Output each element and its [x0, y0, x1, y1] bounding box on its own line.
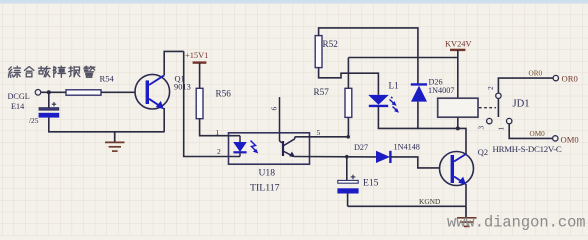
svg-text:OM0: OM0	[530, 130, 546, 138]
wire: coil bottom stub	[457, 117, 459, 128]
resistor R57	[345, 88, 352, 117]
svg-text:9013: 9013	[174, 83, 191, 92]
wire: DCGL terminal to R54	[41, 91, 66, 93]
svg-text:+15V1: +15V1	[185, 51, 208, 60]
wire: R54 to Q1 base	[101, 91, 135, 93]
capacitor E15	[337, 175, 358, 194]
ground near E14	[105, 132, 125, 151]
wire: Q2 emitter down	[465, 184, 467, 206]
terminal OM0	[553, 136, 558, 141]
svg-text:6: 6	[270, 107, 279, 111]
svg-text:1N4007: 1N4007	[428, 86, 454, 95]
transistor Q2	[440, 152, 474, 186]
svg-text:1N4148: 1N4148	[394, 142, 420, 151]
ground under Q2	[457, 206, 477, 226]
relay contact pin 3	[487, 118, 492, 123]
wire: opto pin4 to D27	[295, 156, 376, 158]
svg-text:E15: E15	[363, 177, 379, 188]
svg-text:R52: R52	[323, 39, 339, 49]
optocoupler U18 box	[229, 133, 310, 164]
opto LED	[233, 136, 247, 157]
text 综合故障报警	[8, 66, 95, 77]
wire: junction down to E14	[48, 92, 50, 107]
relay contact pin 1	[507, 118, 512, 123]
svg-text:D27: D27	[354, 143, 368, 152]
svg-text:TIL117: TIL117	[250, 183, 280, 194]
resistor R56	[196, 88, 203, 118]
svg-text:KGND: KGND	[419, 197, 441, 206]
wire: opto pin5	[295, 136, 348, 138]
diode D27	[376, 151, 390, 163]
wire: R57 bottom to pin5 node	[347, 117, 349, 136]
svg-text:2: 2	[217, 147, 221, 156]
svg-text:Q2: Q2	[478, 148, 488, 157]
top blue strip	[0, 0, 588, 4]
relay contact pin 2	[496, 93, 501, 98]
dashed actuator link	[479, 107, 496, 109]
wire: R52 bottom jog to L1 anode	[319, 68, 379, 95]
transistor Q1	[135, 74, 170, 109]
svg-text:HRMH-S-DC12V-C: HRMH-S-DC12V-C	[493, 144, 562, 154]
svg-text:E14: E14	[11, 102, 24, 111]
svg-text:L1: L1	[389, 81, 400, 91]
svg-text:2: 2	[486, 86, 495, 90]
wire: D27 cathode jog to Q2 base	[390, 157, 439, 168]
resistor R52	[315, 36, 322, 68]
svg-text:OR0: OR0	[529, 70, 543, 78]
wire: pin2 up to OR0	[498, 78, 553, 93]
wire: E15 bottom to KGND rail	[347, 194, 349, 207]
svg-text:1: 1	[496, 127, 505, 131]
wire: KV24V horizontal rail	[348, 57, 457, 59]
svg-text:OR0: OR0	[562, 74, 578, 84]
svg-text:DCGL: DCGL	[8, 92, 30, 101]
wire: D26 anode down to coil-bottom rail	[417, 102, 419, 130]
svg-text:5: 5	[317, 128, 321, 137]
relay blade	[497, 99, 499, 117]
terminal DCGL	[35, 90, 41, 96]
wire: L1 cathode down and right to Q2 collector	[378, 107, 466, 154]
node: pin4/E15 junction	[345, 155, 349, 159]
wire: KV24V rail down to R57	[347, 58, 349, 89]
diode D26	[411, 84, 427, 101]
svg-text:KV24V: KV24V	[445, 39, 472, 48]
svg-text:R56: R56	[216, 88, 232, 98]
node: E14 tap junction	[47, 90, 51, 94]
wire: KV24V down to relay coil	[457, 50, 459, 98]
svg-text:3: 3	[477, 126, 486, 130]
svg-text:R54: R54	[100, 74, 115, 84]
wire: Q1 emitter down	[163, 108, 165, 132]
wire: down to opto pin2	[184, 51, 240, 156]
node: pin5/R57 junction	[346, 135, 350, 139]
wire: R56 bottom to opto pin1	[200, 119, 240, 136]
opto phototransistor	[280, 97, 296, 157]
wire: bottom rail to Q1 emitter	[48, 131, 165, 133]
svg-text:JD1: JD1	[513, 99, 530, 110]
svg-text:www.diangon.com: www.diangon.com	[447, 214, 586, 232]
resistor R54	[66, 90, 101, 95]
svg-text:U18: U18	[259, 168, 276, 179]
terminal OR0	[553, 75, 558, 80]
wire: KGND rail	[348, 205, 466, 207]
wire: Q1 collector up and over	[164, 51, 184, 75]
LED L1	[368, 95, 399, 113]
svg-text:/25: /25	[29, 116, 39, 125]
wire: pin1 down to OM0	[509, 124, 552, 139]
svg-text:1: 1	[216, 128, 220, 137]
relay JD1 coil	[438, 98, 478, 117]
svg-text:R57: R57	[314, 87, 330, 97]
capacitor E14	[39, 102, 60, 118]
wire: E14 bottom to emitter rail	[48, 118, 50, 132]
node: coil bottom junction	[456, 126, 460, 130]
wire: node down to E15	[346, 157, 348, 181]
svg-text:D26: D26	[429, 77, 443, 86]
wire: R52 top rail to D26 cathode	[319, 28, 418, 84]
svg-text:OM0: OM0	[561, 134, 579, 144]
opto light arrow	[251, 141, 257, 152]
